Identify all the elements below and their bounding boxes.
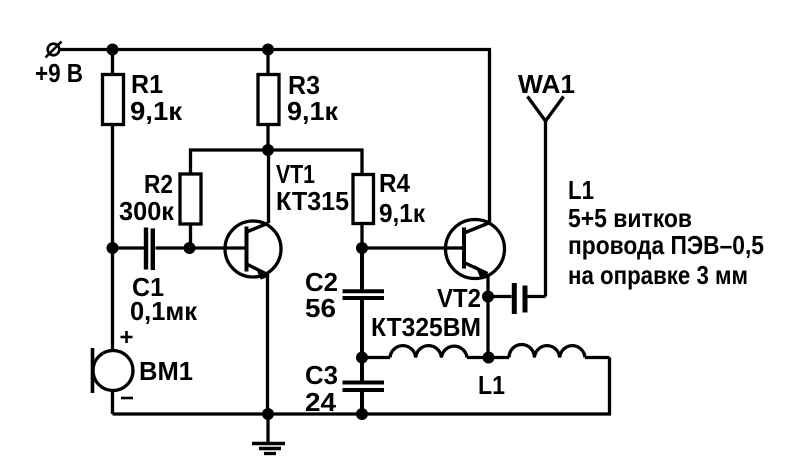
svg-text:провода ПЭВ–0,5: провода ПЭВ–0,5 <box>568 230 764 260</box>
wire VT2 emitter lead <box>486 274 489 297</box>
capacitor C1 <box>146 228 153 271</box>
wire C1 node to microphone <box>111 248 114 351</box>
wire C3 top lead <box>360 358 364 382</box>
svg-text:9,1к: 9,1к <box>379 198 426 228</box>
wire top power rail <box>59 48 491 51</box>
microphone BM1 <box>93 348 134 393</box>
node junction top R3 <box>262 44 274 56</box>
node junction base rail / R3 <box>262 144 274 156</box>
svg-text:C3: C3 <box>305 360 338 390</box>
wire R3 top lead <box>266 50 269 76</box>
wire L1 right to bottom rail <box>608 358 611 415</box>
capacitor C2 <box>343 291 385 298</box>
antenna WA1 <box>528 97 564 297</box>
wire base rail R2-R3-R4 <box>191 150 363 175</box>
node junction R4 bottom <box>356 242 368 254</box>
svg-text:56: 56 <box>305 293 336 323</box>
label BM1 plus <box>121 331 133 343</box>
svg-text:+9 В: +9 В <box>35 58 83 88</box>
svg-text:R4: R4 <box>379 168 410 198</box>
transistor VT1 <box>225 221 281 279</box>
node junction top R1 <box>107 44 119 56</box>
resistor R4 <box>353 175 374 224</box>
wire C1 to VT1 base <box>156 246 227 249</box>
svg-text:R1: R1 <box>131 69 163 99</box>
wire coupling cap to antenna <box>528 295 546 298</box>
svg-text:0,1мк: 0,1мк <box>130 296 198 326</box>
node junction L1 tap <box>483 352 495 364</box>
svg-text:L1: L1 <box>568 175 594 205</box>
svg-text:R2: R2 <box>144 169 173 199</box>
wire emitter node to coupling cap <box>488 295 512 298</box>
wire VT2 collector to top rail <box>488 50 491 223</box>
wire C2 top lead <box>360 248 364 290</box>
node junction C1 left <box>107 242 119 254</box>
wire C2 bottom to L1 node <box>360 299 364 358</box>
svg-text:на оправке 3 мм: на оправке 3 мм <box>568 260 748 290</box>
svg-text:КТ315: КТ315 <box>276 186 349 216</box>
svg-text:WA1: WA1 <box>518 69 575 99</box>
wire C3 bottom lead <box>360 391 364 414</box>
wire bottom ground rail <box>113 412 612 415</box>
label BM1 minus <box>121 397 133 400</box>
transistor VT2 <box>446 220 505 279</box>
wire R4 bottom lead <box>360 223 363 248</box>
node junction C3 bottom <box>356 408 368 420</box>
wire R3 bottom lead <box>266 125 269 151</box>
inductor L1 <box>362 345 610 358</box>
svg-text:ВМ1: ВМ1 <box>139 356 193 386</box>
wire emitter node to L1 tap <box>486 297 489 359</box>
wire R1 top lead <box>111 50 114 76</box>
node junction ground <box>262 408 274 420</box>
svg-text:300к: 300к <box>119 196 175 226</box>
node junction VT2 emitter <box>482 291 494 303</box>
wire R2 bottom lead <box>189 224 192 248</box>
wire microphone to bottom rail <box>111 391 114 415</box>
svg-text:9,1к: 9,1к <box>287 96 339 126</box>
svg-text:L1: L1 <box>478 370 505 400</box>
node junction C2/C3/L1 <box>356 352 368 364</box>
wire R4 node to VT2 base <box>362 246 447 249</box>
terminal X1 (+9V input) <box>46 42 62 58</box>
wire R1 bottom to C1 node <box>111 125 114 250</box>
wire VT1 collector <box>267 150 270 223</box>
svg-text:VT1: VT1 <box>276 159 315 189</box>
resistor R2 <box>180 174 201 224</box>
svg-text:VT2: VT2 <box>437 283 481 313</box>
resistor R1 <box>103 75 124 125</box>
resistor R3 <box>258 75 279 125</box>
capacitor C3 <box>343 383 385 391</box>
ground symbol <box>252 414 285 454</box>
svg-text:КТ325ВМ: КТ325ВМ <box>371 312 481 342</box>
svg-text:9,1к: 9,1к <box>130 96 183 126</box>
wire mic line to C1 <box>113 246 145 249</box>
capacitor antenna coupling <box>514 283 525 314</box>
node junction R2 bottom <box>184 242 196 254</box>
svg-text:5+5 витков: 5+5 витков <box>568 203 692 233</box>
wire VT1 emitter to ground rail <box>266 274 269 414</box>
